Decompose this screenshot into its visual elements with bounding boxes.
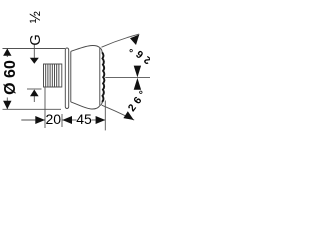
- svg-text:45: 45: [76, 111, 92, 127]
- svg-text:20: 20: [46, 111, 62, 127]
- svg-text:Ø 60: Ø 60: [2, 60, 19, 95]
- svg-text:G ½: G ½: [28, 8, 44, 46]
